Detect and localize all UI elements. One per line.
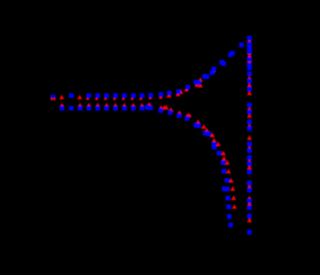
- top flat row: red triangles (mostly occluded): [59, 95, 143, 100]
- upper branch: blue squares: [148, 43, 243, 98]
- leftmost merged cluster: two blue+red pairs: [51, 94, 56, 100]
- bottom flat row: red triangles: [60, 103, 145, 108]
- right column: red triangles: [247, 39, 252, 223]
- right column: blue squares: [247, 36, 252, 235]
- bottom flat row: blue squares: [60, 106, 145, 111]
- lower branch: blue squares: [145, 105, 233, 227]
- lower branch: red triangles: [147, 102, 237, 209]
- upper branch: red triangles: [149, 68, 216, 99]
- top flat row: blue squares: [69, 93, 144, 98]
